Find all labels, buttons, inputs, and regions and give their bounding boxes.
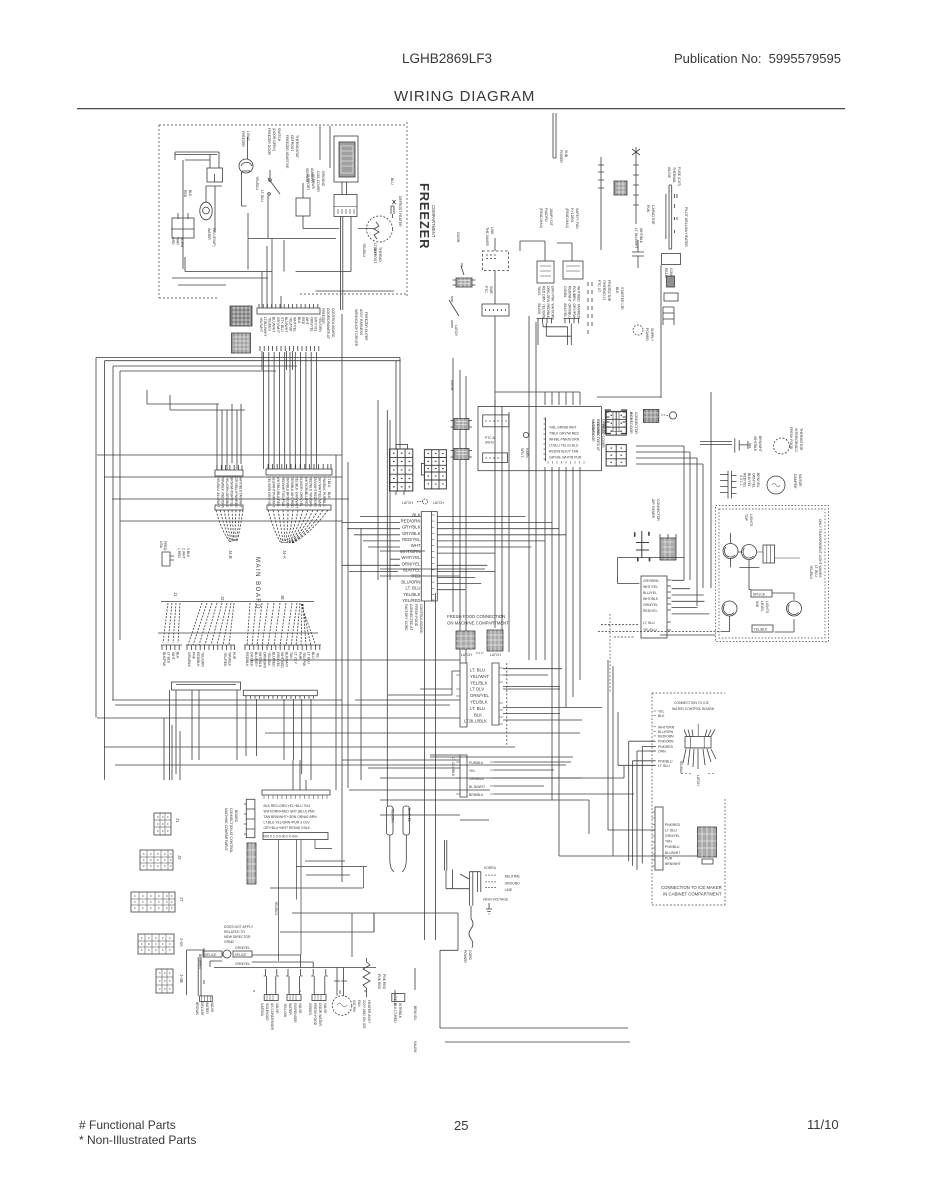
svg-text:POWER: POWER xyxy=(645,328,649,341)
freezer light rays xyxy=(241,137,252,171)
defrost heater element xyxy=(318,222,380,239)
svg-text:BRN/YEL: BRN/YEL xyxy=(413,1006,417,1021)
ice fan motor xyxy=(332,996,352,1016)
svg-text:RIGHT DOOR: RIGHT DOOR xyxy=(629,412,633,434)
svg-text:WH/BL PNK/B ORN: WH/BL PNK/B ORN xyxy=(549,438,580,442)
svg-text:J4-B: J4-B xyxy=(228,550,233,559)
svg-text:VALVE: VALVE xyxy=(323,1003,327,1014)
svg-text:Y/BL GRN/B WHT: Y/BL GRN/B WHT xyxy=(549,426,577,430)
svg-text:YEL/GRN: YEL/GRN xyxy=(391,808,395,823)
latch switch lever xyxy=(449,296,459,328)
svg-text:FREEZER ADAPTIVE: FREEZER ADAPTIVE xyxy=(285,135,289,169)
fresh food thermistor circle xyxy=(774,438,790,454)
board bottom bar mid xyxy=(172,682,241,690)
freezer door switch xyxy=(268,170,280,238)
svg-text:FREEZER: FREEZER xyxy=(417,183,432,249)
mid light rays right xyxy=(788,605,799,615)
right column pin ticks xyxy=(432,515,435,600)
svg-text:BLU/GRY: BLU/GRY xyxy=(299,477,303,493)
svg-text:YEL/BLU: YEL/BLU xyxy=(362,243,366,257)
svg-text:GRY/WHT: GRY/WHT xyxy=(276,317,280,333)
svg-text:LT. BLU/WHT: LT. BLU/WHT xyxy=(634,228,638,248)
main power vertical xyxy=(632,147,640,224)
board region lines xyxy=(158,602,318,634)
J column feeds xyxy=(217,404,241,470)
svg-text:KOREA: KOREA xyxy=(484,866,497,870)
svg-text:RUN: RUN xyxy=(646,205,650,213)
svg-text:WTR/BLK: WTR/BLK xyxy=(398,1003,402,1019)
svg-text:STARTER LTR: STARTER LTR xyxy=(620,287,624,310)
svg-text:LT. BLU: LT. BLU xyxy=(665,828,677,832)
power feed wires xyxy=(445,840,470,889)
svg-text:PNK/ORN: PNK/ORN xyxy=(658,740,674,744)
defrost heater connector pins xyxy=(341,182,352,310)
svg-text:RED/GRN: RED/GRN xyxy=(221,493,225,509)
latch dashed boundary xyxy=(506,663,508,745)
svg-text:YEL/GRN: YEL/GRN xyxy=(225,477,229,492)
svg-text:WATER: WATER xyxy=(205,1002,209,1014)
svg-text:CONNECTOR: CONNECTOR xyxy=(634,412,638,434)
svg-text:ORN: ORN xyxy=(658,750,666,754)
svg-text:CONNECTED AT: CONNECTED AT xyxy=(409,604,413,630)
svg-text:SPLICE: SPLICE xyxy=(205,953,218,957)
freezer control pin labels xyxy=(259,317,322,337)
water valve labels left xyxy=(195,1002,214,1016)
svg-text:J2: J2 xyxy=(220,596,225,601)
ice water relay symbol xyxy=(685,737,711,748)
svg-text:MID: MID xyxy=(755,601,759,608)
svg-text:MAIN DOOR: MAIN DOOR xyxy=(591,422,595,442)
door harness latch upper xyxy=(451,419,473,430)
power cord squiggle xyxy=(469,906,473,948)
svg-text:MOTOR: MOTOR xyxy=(798,474,802,487)
svg-text:000 0 2 0-0-00 0 0-0/0--: 000 0 2 0-0-00 0 0-0/0-- xyxy=(264,835,300,839)
svg-text:GRY/WHT: GRY/WHT xyxy=(318,477,322,493)
svg-text:J7: J7 xyxy=(179,897,184,902)
svg-text:RED/W BLK/Y TAN: RED/W BLK/Y TAN xyxy=(549,450,579,454)
freezer bus wires xyxy=(172,239,394,309)
svg-text:LT. BLU: LT. BLU xyxy=(658,764,670,768)
svg-text:GRN/YEL: GRN/YEL xyxy=(665,834,680,838)
svg-text:YEL/WHT: YEL/WHT xyxy=(259,317,263,332)
latch plug top xyxy=(453,263,476,287)
svg-text:NEW DIRECTOR: NEW DIRECTOR xyxy=(224,935,251,939)
svg-text:BLK: BLK xyxy=(188,190,192,197)
svg-text:ONLY TRANSPARENT LIGHT WAVES: ONLY TRANSPARENT LIGHT WAVES xyxy=(818,519,822,578)
mid band verticals xyxy=(571,762,589,834)
svg-text:GRY/BL WHT/R PUR: GRY/BL WHT/R PUR xyxy=(549,456,582,460)
defrost heater connector xyxy=(334,195,357,217)
svg-text:PILOT MELLOW HEATER: PILOT MELLOW HEATER xyxy=(684,207,688,247)
right door grid lower xyxy=(606,445,626,466)
svg-text:VALVE: VALVE xyxy=(275,1003,279,1014)
svg-text:BLU: BLU xyxy=(311,652,315,659)
svg-text:GRY/BLU+WHT RED#6 Y.BLK: GRY/BLU+WHT RED#6 Y.BLK xyxy=(264,826,311,830)
svg-text:RED/YEL: RED/YEL xyxy=(643,609,658,613)
fresh food board pin col xyxy=(667,580,671,630)
J4-A label stack xyxy=(267,477,331,509)
fresh food door pins xyxy=(456,668,503,724)
svg-text:YEL/PNK: YEL/PNK xyxy=(302,652,306,667)
svg-text:LT. BLU: LT. BLU xyxy=(406,586,421,591)
svg-text:J4-A: J4-A xyxy=(282,550,287,559)
svg-text:* Non-Illustrated Parts: * Non-Illustrated Parts xyxy=(79,1133,196,1147)
svg-text:YEL/BLU: YEL/BLU xyxy=(216,477,220,491)
door connector outer box xyxy=(478,407,601,471)
ice water pin dashes xyxy=(654,711,657,765)
bank bottom ticks xyxy=(548,461,584,463)
left aux labels xyxy=(159,541,190,559)
damper bracket connector xyxy=(606,410,627,434)
svg-text:GRN/BLK: GRN/BLK xyxy=(290,477,294,493)
svg-text:THERMOSTAT: THERMOSTAT xyxy=(295,135,299,158)
evap fan motor xyxy=(200,202,212,220)
svg-text:LT.BLU/WHT: LT.BLU/WHT xyxy=(263,317,267,337)
fresh food door out wires xyxy=(388,669,602,720)
svg-text:BRN/BLK: BRN/BLK xyxy=(469,793,484,797)
mid light rays left xyxy=(723,605,734,615)
svg-text:RED: RED xyxy=(183,190,187,198)
latch grid connector B xyxy=(421,450,446,489)
right mid verticals xyxy=(378,400,390,806)
svg-text:GRY/BLK: GRY/BLK xyxy=(402,531,421,536)
svg-text:PNK: PNK xyxy=(192,652,196,660)
svg-text:3 BLK: 3 BLK xyxy=(186,548,190,558)
svg-text:GRN PNK: GRN PNK xyxy=(551,286,555,302)
svg-text:YEL/BLK: YEL/BLK xyxy=(470,700,488,705)
neutral labels xyxy=(483,875,521,902)
svg-text:POWER: POWER xyxy=(559,150,563,163)
J4A grid connector xyxy=(138,934,174,954)
svg-text:CONTROL BOARD: CONTROL BOARD xyxy=(331,308,335,338)
svg-text:FRESH FOOD: FRESH FOOD xyxy=(789,427,793,450)
svg-text:WHT/RED: WHT/RED xyxy=(577,286,581,302)
ground tree xyxy=(486,903,492,914)
svg-text:AS CONDENSER: AS CONDENSER xyxy=(270,1003,274,1031)
svg-text:BROWN: BROWN xyxy=(195,1002,199,1016)
freezer compartment dashed border xyxy=(159,122,407,298)
pnk red labels xyxy=(377,974,386,990)
svg-text:J1: J1 xyxy=(173,592,178,597)
stepper motor tail xyxy=(661,414,669,416)
svg-text:ORN/BLK: ORN/BLK xyxy=(285,477,289,493)
svg-text:WHT/ORN: WHT/ORN xyxy=(551,304,555,321)
wires into damper area xyxy=(636,392,711,606)
left aux connector xyxy=(162,552,174,566)
light box wires xyxy=(660,567,794,635)
does not apply note xyxy=(224,925,254,944)
transparent light box dashed xyxy=(716,506,829,642)
dispenser pill label B xyxy=(403,806,411,835)
svg-text:(READ MAX): (READ MAX) xyxy=(539,208,543,228)
power cord top feed xyxy=(553,113,556,158)
svg-text:RED/BLK: RED/BLK xyxy=(546,304,550,319)
svg-text:SCRW: SCRW xyxy=(180,237,184,248)
power plug comb xyxy=(469,872,480,906)
ice fan labels xyxy=(352,1000,361,1012)
evap fan motor hub xyxy=(203,207,210,214)
svg-text:WHT/BLK: WHT/BLK xyxy=(639,228,643,244)
right column incoming wires xyxy=(342,517,421,566)
board to right horizontals xyxy=(342,565,398,571)
svg-text:YEL: YEL xyxy=(469,769,476,773)
mid band horizontals xyxy=(115,660,589,820)
svg-text:GRY/PNK: GRY/PNK xyxy=(572,304,576,320)
svg-text:BLK LT./RED: BLK LT./RED xyxy=(393,1003,397,1023)
svg-text:GRN/YEL: GRN/YEL xyxy=(235,962,250,966)
svg-text:PNK/BLU: PNK/BLU xyxy=(658,759,673,763)
fresh food lower out wires xyxy=(430,747,634,794)
top light rays 1 xyxy=(724,533,735,557)
fresh food hatch A xyxy=(456,631,475,649)
svg-text:YEL/BLU: YEL/BLU xyxy=(255,176,259,190)
svg-text:11/10: 11/10 xyxy=(807,1117,839,1132)
svg-text:PNK/RED: PNK/RED xyxy=(234,493,238,509)
svg-text:MAIN BOARD: MAIN BOARD xyxy=(254,557,260,610)
valve 2 bracket xyxy=(286,969,303,995)
J7 grid connector xyxy=(131,892,175,912)
splice wires xyxy=(187,950,253,995)
freezer left connector xyxy=(172,218,194,238)
svg-text:YEL/WHT: YEL/WHT xyxy=(470,674,489,679)
svg-text:WHT: WHT xyxy=(171,652,175,660)
svg-text:LT. OLV: LT. OLV xyxy=(293,652,297,664)
svg-text:TAN/BLK: TAN/BLK xyxy=(221,477,225,492)
svg-text:WHT/GRN: WHT/GRN xyxy=(304,477,308,494)
light wires top xyxy=(731,559,760,568)
svg-text:RED/BLU: RED/BLU xyxy=(308,477,312,492)
svg-text:CONNECTION AT CONTROL: CONNECTION AT CONTROL xyxy=(229,808,233,853)
svg-text:LT. BLU: LT. BLU xyxy=(260,190,264,202)
board bottom pins xyxy=(176,685,314,699)
valve 3 bracket xyxy=(311,969,328,995)
svg-text:RED: RED xyxy=(301,317,305,325)
defrost heater wires xyxy=(391,200,396,218)
fresh food horizontals xyxy=(380,551,485,576)
svg-text:PUR/BLK: PUR/BLK xyxy=(469,761,484,765)
power tick line xyxy=(598,157,604,250)
compressor drop verticals xyxy=(495,400,509,652)
valve area stubs xyxy=(204,968,415,1000)
svg-text:STY. BLU: STY. BLU xyxy=(280,317,284,332)
svg-text:RED/WHT: RED/WHT xyxy=(281,477,285,493)
svg-text:YEL/BLK: YEL/BLK xyxy=(267,652,271,666)
svg-text:2 WHT: 2 WHT xyxy=(182,548,186,559)
svg-text:BLU/WHT: BLU/WHT xyxy=(665,851,680,855)
svg-text:DOES NOT APPLY: DOES NOT APPLY xyxy=(224,925,254,929)
svg-text:BLK: BLK xyxy=(658,714,665,718)
right column labels xyxy=(400,513,421,603)
svg-text:BLK/PNK: BLK/PNK xyxy=(162,652,166,667)
svg-text:PUR: PUR xyxy=(298,652,302,660)
svg-text:J-4B: J-4B xyxy=(179,974,184,983)
svg-text:GRY/BRN: GRY/BRN xyxy=(643,579,659,583)
freezer left connector pins xyxy=(178,213,188,219)
svg-text:YEL/PUR: YEL/PUR xyxy=(288,317,292,332)
freezer control connector pins top xyxy=(259,304,318,308)
svg-text:J2: J2 xyxy=(177,855,182,860)
relay1 inner xyxy=(540,266,551,276)
factory cord label xyxy=(404,604,423,634)
main door connector labels xyxy=(591,422,605,451)
board label stack left xyxy=(162,652,180,667)
wire table bottom bar xyxy=(263,833,328,840)
board pin row left xyxy=(161,645,182,650)
svg-text:PNK RED: PNK RED xyxy=(377,974,381,990)
svg-text:SWITCH: SWITCH xyxy=(277,128,281,142)
svg-text:FREEZER: FREEZER xyxy=(321,308,325,324)
svg-text:DISPENSER: DISPENSER xyxy=(293,1003,297,1023)
harness hatched connector xyxy=(247,843,256,884)
svg-text:VALVE: VALVE xyxy=(210,1002,214,1013)
relay2 labels above xyxy=(565,208,579,229)
svg-text:BLK: BLK xyxy=(297,317,301,324)
svg-text:BLK: BLK xyxy=(176,652,180,659)
svg-text:LT BLU: LT BLU xyxy=(167,652,171,664)
splice box left xyxy=(203,951,222,957)
svg-text:LINE: LINE xyxy=(490,227,494,235)
damper labels xyxy=(739,473,802,489)
svg-text:FRESH FOOD: FRESH FOOD xyxy=(414,604,418,627)
svg-text:ON MACHINE COMPARTMENT: ON MACHINE COMPARTMENT xyxy=(447,621,509,626)
relay2 wire up xyxy=(557,243,572,261)
damper motor circle xyxy=(767,476,785,494)
svg-text:TAN/RED: TAN/RED xyxy=(577,304,581,319)
left bus vertical 4 xyxy=(119,371,121,640)
svg-text:ICE RM: ICE RM xyxy=(352,1000,356,1012)
svg-text:WHT: WHT xyxy=(305,317,309,325)
inline fuse wires xyxy=(666,185,677,249)
fresh food hatch B xyxy=(487,630,503,651)
stray dash segments xyxy=(598,632,722,637)
freezer door switch contacts xyxy=(269,179,272,182)
svg-text:TAN/BLK: TAN/BLK xyxy=(228,652,232,667)
svg-text:YEL: YEL xyxy=(315,652,319,659)
svg-text:DELUXE: DELUXE xyxy=(200,1002,204,1016)
coil cover hatch connector xyxy=(339,142,355,177)
latch arrow 2 xyxy=(476,652,484,654)
relay2 labels below xyxy=(563,286,581,319)
svg-text:LIGHTS: LIGHTS xyxy=(765,601,769,614)
svg-text:ORN/YEL: ORN/YEL xyxy=(470,693,489,698)
water valve coil left xyxy=(200,996,213,1002)
svg-text:WHT/RED: WHT/RED xyxy=(290,492,294,508)
grd war scrw labels xyxy=(171,237,184,248)
svg-text:FIA/DPO: FIA/DPO xyxy=(544,208,548,222)
J4-B connector bar xyxy=(215,470,243,476)
svg-text:J1: J1 xyxy=(175,818,180,823)
svg-text:RED/ORN: RED/ORN xyxy=(658,734,674,738)
wire from flat connector down xyxy=(494,238,496,407)
freezer vertical feeds xyxy=(262,126,330,370)
svg-text:BOARD: BOARD xyxy=(234,810,238,823)
J4-B pins top xyxy=(217,465,242,470)
svg-text:YEL/BLK: YEL/BLK xyxy=(679,760,683,774)
svg-text:BLK: BLK xyxy=(327,492,331,499)
splice label box xyxy=(751,590,772,597)
J4-A pins top xyxy=(268,464,331,469)
compressor ptc dashes xyxy=(588,282,592,334)
air damper plug hatch xyxy=(660,534,676,560)
svg-text:SUPPLY: SUPPLY xyxy=(650,328,654,342)
right valve texts xyxy=(393,1003,417,1053)
svg-text:NEUTRAL: NEUTRAL xyxy=(505,875,521,879)
svg-text:PUR: PUR xyxy=(665,856,673,860)
svg-text:IN CABINET COMPARTMENT: IN CABINET COMPARTMENT xyxy=(663,892,722,897)
wire evap to connector xyxy=(182,160,184,269)
svg-text:GRN/YEL: GRN/YEL xyxy=(235,946,250,950)
svg-text:1 RED: 1 RED xyxy=(177,548,181,559)
svg-text:FREEZER: FREEZER xyxy=(241,131,245,147)
svg-text:POWER: POWER xyxy=(463,950,467,963)
svg-text:WIRING/LIGHT DRIVER: WIRING/LIGHT DRIVER xyxy=(354,309,358,347)
bank top feeds xyxy=(495,392,580,405)
svg-text:WHT/YEL: WHT/YEL xyxy=(401,555,421,560)
svg-text:BLU/YEL: BLU/YEL xyxy=(643,591,657,595)
valve 2 labels xyxy=(283,1003,302,1023)
ice maker connector ticks xyxy=(652,812,655,866)
svg-text:GA/VB: GA/VB xyxy=(456,232,460,243)
J4-A lower bar xyxy=(267,505,331,510)
top light lamp 2 xyxy=(742,545,757,560)
svg-text:# Functional Parts: # Functional Parts xyxy=(79,1118,176,1132)
svg-text:SUB: SUB xyxy=(564,150,568,158)
wire table bar xyxy=(262,790,330,795)
svg-text:VALVE: VALVE xyxy=(298,1003,302,1014)
svg-text:BLK/YEL: BLK/YEL xyxy=(403,567,421,572)
svg-text:FUSE (CUT): FUSE (CUT) xyxy=(677,167,681,186)
svg-text:FACTORY CORD: FACTORY CORD xyxy=(404,604,408,631)
svg-text:GRY/YEL: GRY/YEL xyxy=(314,317,318,332)
relay1 wire up xyxy=(520,241,545,261)
tv saver dashes xyxy=(486,255,496,259)
fresh food board pin labels xyxy=(643,579,659,632)
wires damper to box xyxy=(618,558,710,614)
svg-text:SPLICE: SPLICE xyxy=(235,953,248,957)
svg-text:LIGHT: LIGHT xyxy=(246,131,250,141)
fresh food lower pins xyxy=(456,762,494,794)
svg-text:GREEN: GREEN xyxy=(308,1003,312,1016)
thermostat wires xyxy=(248,183,336,239)
svg-text:WHT/BLK: WHT/BLK xyxy=(643,597,659,601)
flat connector bar mid xyxy=(482,304,509,316)
board lower fan left xyxy=(163,603,180,643)
svg-text:RED/WHT: RED/WHT xyxy=(568,286,572,302)
wire table bar pins xyxy=(264,795,327,799)
bank tick column xyxy=(544,417,546,461)
fresh food lower labels xyxy=(469,761,485,797)
right feed verticals xyxy=(529,316,536,660)
board label stack right xyxy=(245,652,319,669)
svg-text:YEL/BLU: YEL/BLU xyxy=(274,901,278,915)
svg-text:CORD: CORD xyxy=(468,950,472,961)
svg-text:FREQ: FREQ xyxy=(163,541,167,551)
svg-text:SCREWS: SCREWS xyxy=(311,174,315,190)
harness tall connector xyxy=(246,799,255,837)
relay2 pin row xyxy=(564,318,580,323)
svg-text:CONNECTOR: CONNECTOR xyxy=(656,499,660,521)
svg-text:YEL: YEL xyxy=(658,710,665,714)
valve bus xyxy=(214,955,376,968)
relay box 1 xyxy=(537,261,554,283)
dispenser pill label A xyxy=(387,806,395,835)
svg-text:SUPPORT: SUPPORT xyxy=(306,174,310,190)
fresh food door labels xyxy=(464,668,489,724)
svg-text:GRN/WHT: GRN/WHT xyxy=(295,492,299,508)
right column continuation verticals xyxy=(425,593,436,940)
svg-text:DEFROST: DEFROST xyxy=(290,135,294,151)
svg-text:ORN/BLU: ORN/BLU xyxy=(469,777,485,781)
